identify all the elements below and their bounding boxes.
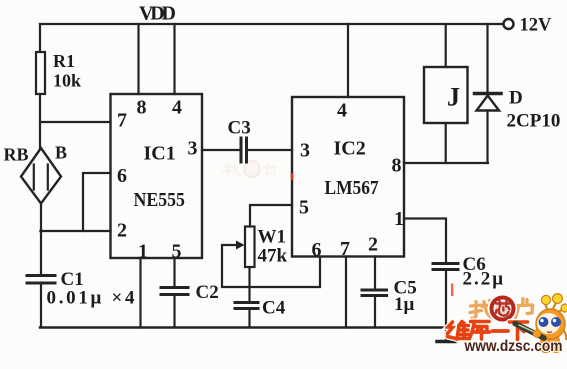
svg-text:RB: RB bbox=[4, 145, 29, 165]
svg-text:6: 6 bbox=[312, 239, 322, 261]
mascot face bbox=[537, 313, 560, 334]
watermark zhao char white halo bbox=[470, 302, 493, 319]
svg-text:8: 8 bbox=[137, 97, 147, 119]
ground stub bbox=[445, 328, 447, 342]
svg-text:2: 2 bbox=[368, 234, 378, 256]
svg-text:1: 1 bbox=[138, 241, 148, 263]
diode D triangle bbox=[477, 96, 500, 111]
svg-text:R1: R1 bbox=[53, 51, 75, 71]
svg-text:IC2: IC2 bbox=[334, 138, 366, 160]
wire IC2 pin4 to VDD bbox=[347, 24, 349, 97]
watermark weiku yixia white halo bbox=[448, 322, 528, 340]
mascot head bbox=[536, 309, 565, 339]
wire pin6 bend bbox=[83, 173, 111, 231]
svg-text:12V: 12V bbox=[520, 16, 553, 36]
mascot antenna bulbs bbox=[541, 295, 550, 304]
potentiometer W1 arrowhead bbox=[236, 241, 245, 250]
wire R1 bottom to RB top bbox=[39, 94, 41, 148]
svg-text:1: 1 bbox=[394, 208, 404, 230]
svg-text:2CP10: 2CP10 bbox=[507, 111, 561, 132]
svg-text:10k: 10k bbox=[53, 71, 81, 91]
ground bar bbox=[437, 340, 455, 344]
sensor RB diamond bbox=[21, 148, 61, 204]
wire pin7 stub bbox=[40, 121, 111, 123]
capacitor C5 bbox=[362, 289, 387, 292]
svg-text:W1: W1 bbox=[258, 227, 287, 248]
capacitor C4 bbox=[235, 301, 258, 304]
wire IC2 pin2 down to C5 bbox=[374, 257, 376, 290]
svg-text:C4: C4 bbox=[262, 298, 286, 319]
wire C6 to bottom rail bbox=[445, 271, 447, 328]
op-amp IC1 box bbox=[111, 94, 203, 258]
svg-text:J: J bbox=[447, 83, 460, 112]
wire J top to VDD bbox=[445, 24, 447, 67]
watermark faint middle motif bbox=[223, 161, 275, 177]
resistor R1 bbox=[36, 52, 45, 94]
svg-text:2.2μ: 2.2μ bbox=[463, 269, 506, 290]
capacitor C6 bbox=[433, 262, 458, 265]
diode D cathode bar bbox=[475, 92, 502, 96]
watermark magnifier ring bbox=[492, 298, 514, 320]
junction dot pin2 left wire bbox=[39, 229, 43, 233]
wire IC1 pin8 to VDD bbox=[137, 24, 139, 94]
wire J bottom to pin8 line bbox=[445, 123, 447, 163]
svg-text:4: 4 bbox=[172, 97, 182, 119]
watermark red dash on IC2 edge bbox=[291, 173, 294, 181]
mascot eyes bbox=[539, 317, 549, 327]
ku bbox=[471, 320, 490, 324]
watermark zhao char bbox=[470, 301, 493, 319]
svg-text:D: D bbox=[509, 88, 523, 109]
svg-text:C3: C3 bbox=[228, 118, 251, 139]
mascot feet bbox=[542, 347, 550, 352]
svg-text:C2: C2 bbox=[196, 282, 219, 303]
wire RB bottom to C1 bbox=[40, 204, 42, 275]
wire IC1 pin5 down bbox=[173, 258, 175, 286]
svg-text:5: 5 bbox=[299, 197, 309, 219]
mascot fist on handle bbox=[533, 330, 541, 338]
wei bbox=[448, 322, 453, 334]
wire D top to VDD bbox=[486, 24, 488, 92]
svg-text:NE555: NE555 bbox=[134, 189, 185, 211]
capacitor C3 bbox=[240, 138, 243, 162]
wire IC2 pin7 down bbox=[345, 257, 347, 328]
svg-text:IC1: IC1 bbox=[144, 143, 176, 165]
wire IC1 pin3 to C3 bbox=[202, 149, 240, 151]
mascot body bbox=[540, 337, 562, 352]
sensor RB inner bars bbox=[33, 165, 35, 190]
capacitor C1 bbox=[27, 274, 55, 277]
svg-text:6: 6 bbox=[117, 165, 127, 187]
wire C1 to bottom rail bbox=[40, 284, 42, 328]
relay J box bbox=[424, 67, 468, 123]
yi bbox=[493, 329, 509, 333]
svg-text:1μ: 1μ bbox=[394, 294, 415, 315]
watermark pian char bbox=[513, 299, 533, 318]
svg-text:7: 7 bbox=[117, 110, 127, 132]
watermark xin char in ring bbox=[496, 301, 510, 316]
wire C5 to bottom rail bbox=[374, 297, 376, 328]
wire IC1 pin1 down bbox=[139, 258, 141, 328]
mascot magnifier handle bbox=[515, 324, 544, 339]
svg-text:B: B bbox=[55, 143, 67, 163]
xia bbox=[510, 320, 528, 324]
svg-text:VDD: VDD bbox=[139, 3, 176, 25]
potentiometer W1 wiper wire bbox=[222, 245, 320, 287]
op-amp IC2 box bbox=[292, 97, 404, 257]
wire IC2 pin5 bend to W1 bbox=[250, 205, 292, 227]
svg-text:47k: 47k bbox=[258, 246, 288, 267]
svg-text:2: 2 bbox=[117, 220, 127, 242]
mascot mouth bbox=[547, 332, 552, 333]
svg-text:3: 3 bbox=[188, 138, 198, 160]
svg-text:www.dzsc.com: www.dzsc.com bbox=[464, 338, 563, 355]
svg-text:LM567: LM567 bbox=[325, 177, 379, 199]
wire C2 to bottom rail bbox=[173, 296, 175, 328]
potentiometer W1 body bbox=[245, 227, 255, 268]
wire C4 to bottom rail bbox=[248, 310, 250, 328]
svg-text:8: 8 bbox=[392, 155, 402, 177]
mascot antenna stalks bbox=[545, 304, 548, 310]
wire IC1 pin4 to VDD bbox=[173, 24, 175, 94]
wire C3 to IC2 pin3 bbox=[248, 149, 292, 151]
wire D bottom to pin8 line bbox=[486, 111, 488, 164]
watermark red tick above wei char bbox=[451, 284, 453, 297]
terminal 12V circle bbox=[504, 19, 514, 29]
watermark logo group bbox=[448, 294, 567, 355]
svg-text:7: 7 bbox=[340, 238, 350, 260]
wire IC2 pin8 line bbox=[404, 162, 488, 164]
wire bottom rail bbox=[40, 326, 446, 328]
wire pin2 line bbox=[41, 230, 111, 232]
svg-text:5: 5 bbox=[172, 241, 182, 263]
watermark weiku yixia text bbox=[448, 322, 528, 340]
wire VDD top rail bbox=[40, 23, 503, 25]
wire IC2 pin1 bend to C6 bbox=[404, 219, 446, 263]
svg-text:0.01μ ×4: 0.01μ ×4 bbox=[47, 288, 138, 309]
svg-text:3: 3 bbox=[300, 140, 310, 162]
wire left vertical VDD to R1 bbox=[39, 24, 41, 52]
capacitor C2 bbox=[161, 286, 188, 289]
wire W1 bottom to C4 bbox=[248, 267, 250, 301]
svg-text:4: 4 bbox=[337, 100, 347, 122]
mascot arm right bbox=[563, 330, 566, 340]
